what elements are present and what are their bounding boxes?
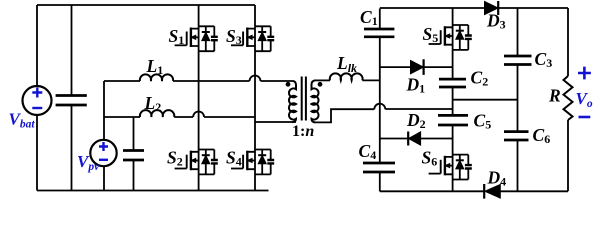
svg-text:S3: S3	[226, 26, 242, 47]
svg-text:S5: S5	[423, 24, 439, 45]
svg-text:C6: C6	[533, 125, 551, 146]
svg-text:C2: C2	[471, 67, 489, 88]
svg-text:S1: S1	[169, 26, 185, 47]
svg-text:C5: C5	[474, 110, 492, 131]
svg-text:S2: S2	[167, 148, 183, 169]
svg-text:S6: S6	[422, 147, 438, 168]
svg-text:Vpv: Vpv	[77, 152, 100, 173]
svg-text:R: R	[548, 86, 561, 106]
svg-text:C1: C1	[360, 7, 378, 28]
svg-text:L1: L1	[146, 56, 164, 77]
svg-text:D1: D1	[406, 74, 426, 95]
svg-text:D4: D4	[487, 167, 507, 188]
svg-text:D3: D3	[486, 11, 506, 32]
svg-text:L2: L2	[144, 93, 162, 114]
svg-text:Vo: Vo	[576, 89, 593, 110]
svg-text:C4: C4	[359, 141, 377, 162]
svg-text:C3: C3	[535, 49, 553, 70]
svg-text:Llk: Llk	[336, 53, 357, 75]
svg-text:1:n: 1:n	[292, 123, 314, 140]
svg-text:D2: D2	[406, 110, 426, 131]
svg-text:S4: S4	[226, 148, 242, 169]
